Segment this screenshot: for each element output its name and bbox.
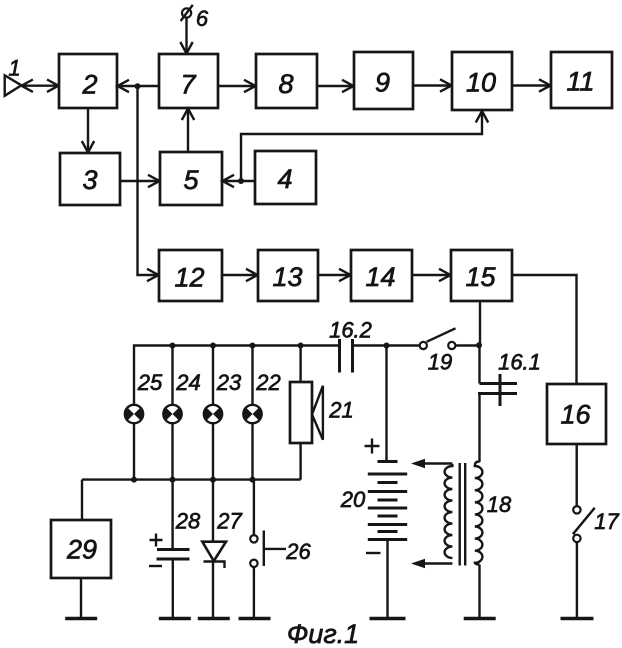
wire 7 to 8 bbox=[218, 80, 256, 92]
block 12 bbox=[159, 250, 222, 301]
wire lamp 25 lower lead bbox=[133, 423, 135, 480]
block 3 bbox=[60, 153, 120, 205]
wire 15 to lamp bus bbox=[479, 301, 481, 346]
svg-text:23: 23 bbox=[216, 370, 242, 395]
lamp 24 bbox=[163, 370, 200, 423]
speaker 21 bbox=[290, 382, 354, 443]
wire junction A to block 12 bbox=[138, 86, 159, 281]
svg-text:16.1: 16.1 bbox=[498, 350, 541, 375]
svg-text:13: 13 bbox=[272, 262, 302, 292]
wire lower bus bbox=[82, 478, 301, 480]
wire 14 to 15 bbox=[412, 269, 451, 281]
svg-text:29: 29 bbox=[66, 535, 97, 565]
wire 29 to ground bbox=[80, 578, 82, 618]
svg-text:10: 10 bbox=[466, 68, 496, 98]
wire 13 to 14 bbox=[318, 269, 351, 281]
svg-text:6: 6 bbox=[196, 6, 209, 31]
wire 15 to 16 bbox=[512, 275, 577, 383]
svg-text:28: 28 bbox=[175, 509, 201, 534]
wire lower bus to block 29 bbox=[81, 480, 83, 520]
block 14 bbox=[351, 250, 412, 301]
ground under 26 bbox=[239, 617, 271, 621]
svg-text:24: 24 bbox=[175, 370, 200, 395]
battery 20 bbox=[340, 439, 407, 554]
capacitor C16.2 bbox=[329, 318, 372, 373]
svg-text:4: 4 bbox=[277, 164, 292, 194]
wire speaker leads bbox=[299, 346, 301, 480]
svg-text:2: 2 bbox=[81, 70, 97, 100]
wire 9 to 10 bbox=[413, 79, 452, 91]
svg-text:1: 1 bbox=[8, 56, 20, 81]
wire battery leads bbox=[387, 346, 388, 619]
lamp 23 bbox=[204, 370, 242, 423]
node node speaker top bbox=[298, 343, 304, 349]
wire switch 19 to node C bbox=[456, 344, 480, 346]
wire 4 to 5 bbox=[223, 175, 256, 187]
svg-text:15: 15 bbox=[465, 262, 496, 292]
ground under 27 bbox=[198, 617, 230, 621]
wire 10 to 11 bbox=[512, 79, 551, 91]
block 10 bbox=[452, 52, 512, 110]
node node lamp 22 bottom bbox=[250, 477, 256, 483]
node node lamp 23 top bbox=[210, 343, 216, 349]
wire transducer to block 2 (double arrow) bbox=[21, 80, 58, 92]
svg-text:11: 11 bbox=[566, 67, 594, 97]
svg-text:5: 5 bbox=[183, 165, 199, 195]
svg-text:19: 19 bbox=[428, 350, 452, 375]
ground under 29 bbox=[65, 617, 97, 621]
push button 26 bbox=[250, 531, 311, 568]
wire transformer secondary leads bbox=[478, 394, 480, 619]
input 6 terminal bbox=[181, 5, 209, 31]
transformer 18 bbox=[411, 459, 512, 568]
wire 16 to switch 17 bbox=[576, 444, 578, 506]
svg-text:8: 8 bbox=[278, 69, 293, 99]
svg-text:18: 18 bbox=[487, 492, 512, 517]
capacitor 28 (polarized) bbox=[149, 509, 201, 567]
wire lamp 23 leads bbox=[212, 346, 214, 480]
transducer 1 bbox=[5, 56, 22, 96]
node node lamp 25 bottom bbox=[131, 477, 137, 483]
svg-text:22: 22 bbox=[255, 370, 280, 395]
block 15 bbox=[451, 250, 512, 301]
wire lamp 22 leads bbox=[251, 346, 253, 480]
ground under 28 bbox=[159, 617, 191, 621]
svg-text:Фиг.1: Фиг.1 bbox=[287, 619, 359, 648]
node node lamp 23 bottom bbox=[210, 477, 216, 483]
svg-text:16.2: 16.2 bbox=[329, 318, 372, 343]
wire 12 to 13 bbox=[222, 269, 258, 281]
node junction A (7-2 branch) bbox=[135, 83, 141, 89]
block 16 bbox=[547, 384, 606, 444]
wire 16.2 to switch 19 bbox=[353, 344, 420, 346]
wire capacitor 28 leads bbox=[171, 480, 174, 618]
svg-text:26: 26 bbox=[285, 539, 311, 564]
svg-text:16: 16 bbox=[560, 400, 591, 430]
node node battery tap bbox=[384, 343, 390, 349]
wire 8 to 9 bbox=[317, 80, 354, 92]
ground under battery bbox=[370, 617, 406, 621]
block 7 bbox=[159, 54, 218, 108]
svg-text:25: 25 bbox=[137, 370, 163, 395]
node node C (bus / block 15) bbox=[476, 342, 482, 348]
block 4 bbox=[255, 151, 316, 204]
svg-text:21: 21 bbox=[328, 398, 353, 423]
ground under transformer bbox=[464, 617, 496, 621]
wire node C to 16.1 bbox=[478, 346, 480, 384]
ground under 17 bbox=[561, 617, 594, 621]
wire 2 to 3 bbox=[82, 108, 94, 153]
block 29 bbox=[51, 520, 111, 578]
block 9 bbox=[354, 52, 413, 109]
svg-text:14: 14 bbox=[365, 262, 395, 292]
svg-text:9: 9 bbox=[375, 68, 390, 98]
svg-text:3: 3 bbox=[82, 165, 97, 195]
wire input 6 to block 7 bbox=[180, 18, 192, 54]
node node lamp 24 bottom bbox=[170, 477, 176, 483]
node node lamp 22 top bbox=[250, 343, 256, 349]
svg-text:17: 17 bbox=[594, 509, 619, 534]
wire switch 17 to ground bbox=[576, 542, 578, 618]
wire diode 27 leads bbox=[212, 480, 214, 618]
svg-text:27: 27 bbox=[216, 509, 242, 534]
block 13 bbox=[258, 250, 318, 301]
wire lamp 24 leads bbox=[171, 346, 173, 480]
svg-text:12: 12 bbox=[174, 263, 204, 293]
wire lamp bus left segment bbox=[134, 346, 339, 405]
svg-text:7: 7 bbox=[180, 70, 196, 100]
node node lamp 24 top bbox=[170, 343, 176, 349]
block 8 bbox=[256, 54, 317, 108]
lamp 25 bbox=[125, 370, 163, 423]
switch 19 bbox=[420, 328, 456, 374]
lamp 22 bbox=[243, 370, 280, 423]
block 5 bbox=[160, 152, 222, 205]
node junction B (4-5 branch) bbox=[238, 178, 244, 184]
wire feedback node B to block 10 bbox=[241, 111, 488, 181]
wire 3 to 5 bbox=[120, 175, 160, 187]
block 2 bbox=[59, 54, 117, 108]
capacitor C16.1 bbox=[478, 350, 541, 407]
block 11 bbox=[551, 52, 612, 108]
switch 17 bbox=[573, 506, 620, 542]
wire button 26 leads bbox=[253, 480, 255, 618]
diode 27 bbox=[202, 509, 242, 569]
svg-text:20: 20 bbox=[340, 487, 366, 512]
wire 7 to 2 bbox=[118, 80, 160, 92]
wire 5 to 7 bbox=[182, 109, 194, 153]
